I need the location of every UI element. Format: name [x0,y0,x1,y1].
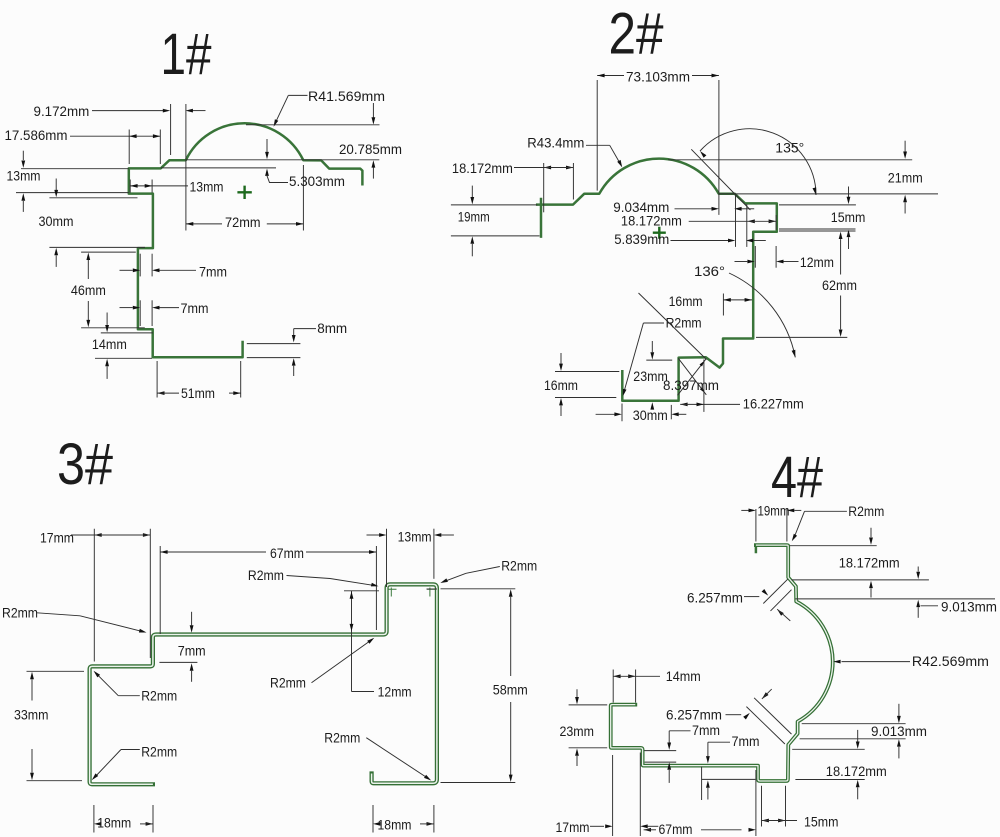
dim 5.303mm [266,139,268,152]
extension line x=718.9 [718,80,720,215]
svg-text:5.303mm: 5.303mm [289,173,345,189]
svg-text:R2mm: R2mm [324,730,360,746]
bottom-right reference line L4 sec4 [795,779,864,781]
step-bottom extension lines right [779,228,856,230]
svg-text:R2mm: R2mm [666,315,702,331]
svg-text:15mm: 15mm [804,814,839,830]
svg-text:8.397mm: 8.397mm [663,377,719,393]
svg-text:9.013mm: 9.013mm [941,599,997,615]
extension line x=129 (17.586 left) [128,130,130,165]
svg-text:R2mm: R2mm [501,558,537,574]
svg-text:R42.569mm: R42.569mm [912,653,989,669]
svg-text:1#: 1# [161,22,212,87]
top flat extension line right sec4 [790,545,877,547]
extension line x=746.8 [746,204,748,247]
dim 18mm left [93,805,95,833]
svg-text:18mm: 18mm [97,815,131,831]
dim 14mm sec4 [612,670,614,703]
extension line x=612.6 sec4 [612,755,614,836]
svg-text:3#: 3# [57,432,113,497]
svg-text:6.257mm: 6.257mm [687,590,743,606]
svg-text:136°: 136° [694,263,725,279]
svg-text:16mm: 16mm [544,377,578,393]
svg-text:62mm: 62mm [822,277,857,293]
33mm bottom reference line [27,780,83,782]
chamfer extension diagonal for 135 [691,149,750,210]
profile 2 left end tick [540,199,543,237]
46mm bottom reference line [81,327,145,329]
7mm reference lines first sec4 [644,750,676,752]
extension line x=755.3 mid [754,246,756,268]
profile 3 inner corner tick left [388,588,397,597]
svg-text:15mm: 15mm [831,209,866,225]
diagonal reference line for 136 [639,293,707,360]
svg-text:17.586mm: 17.586mm [5,127,68,143]
flat-top extension line right [779,204,856,206]
dim 12mm sec3 [351,591,353,692]
svg-text:12mm: 12mm [800,254,834,270]
extension line x=160.3 (17.586 right) [159,130,161,165]
svg-text:72mm: 72mm [225,214,261,230]
svg-text:R2mm: R2mm [2,605,38,621]
svg-text:R2mm: R2mm [248,567,284,583]
dim 46mm [86,253,90,260]
svg-text:46mm: 46mm [71,282,106,298]
svg-text:9.172mm: 9.172mm [34,103,90,119]
profile 4 outline [611,545,833,781]
svg-text:51mm: 51mm [181,385,215,401]
svg-text:7mm: 7mm [178,643,206,659]
58mm short extension line [427,588,438,590]
svg-text:18.172mm: 18.172mm [621,213,682,229]
profile 4 top flat end tick [755,545,758,552]
svg-text:7mm: 7mm [692,722,720,738]
19mm top reference line [451,204,537,206]
center mark profile 2 [653,227,666,239]
extension line x=150.3 [149,529,151,658]
dim 51mm [156,361,158,398]
svg-text:2#: 2# [609,2,664,67]
dim 72mm [186,223,222,225]
chamfer-start extension line right sec4 [792,579,929,581]
profile 2 outline [537,159,777,401]
dim 18mm right [372,805,374,833]
23mm top reference line [646,359,672,361]
svg-text:14mm: 14mm [92,336,127,352]
46mm top reference line [81,251,136,253]
23mm top reference line sec4 [569,704,608,706]
svg-text:13mm: 13mm [7,168,41,184]
30mm bottom reference line [49,246,145,248]
svg-text:13mm: 13mm [398,529,432,545]
chamfer-end extension line right sec4 [796,598,996,600]
extension line x=94.3 [93,529,95,662]
14mm bottom reference line [95,357,152,359]
chamfer tick lines top sec4 [763,579,787,603]
extension line x=170.6 (9.172 left) [170,104,172,155]
profile 3 inner corner tick right [427,588,436,597]
flat reference line for 5.303 [161,167,276,169]
extension line x=160.2 [159,546,161,634]
extension line x=376.4 [375,546,377,630]
profile 1 outline [129,123,363,357]
bottom-right reference line L2 sec4 [800,738,906,740]
dim 14mm [106,313,108,325]
svg-text:5.839mm: 5.839mm [614,231,669,247]
svg-text:30mm: 30mm [633,407,668,423]
extension line x=185.9 (9.172 right / 72 left) [185,104,187,231]
33mm top reference line [27,670,85,672]
extension line x=622 [621,404,623,422]
extension line x=776.1 upper [775,215,777,230]
svg-text:16mm: 16mm [669,293,703,309]
dim 30mm [55,179,57,191]
svg-text:7mm: 7mm [732,733,760,749]
extension line x=755.9 sec4 [755,770,757,836]
62mm bottom reference line [756,336,847,338]
16mm-left bottom reference line [555,397,616,399]
14mm top reference line [101,332,153,334]
12mm top extension line [344,590,379,592]
svg-text:18.172mm: 18.172mm [452,160,513,176]
svg-text:19mm: 19mm [758,503,790,519]
extension line x=701.6 sec4 [701,767,703,801]
svg-text:R41.569mm: R41.569mm [308,88,385,104]
svg-text:14mm: 14mm [666,668,701,684]
svg-text:16.227mm: 16.227mm [743,396,804,412]
16mm-left top reference line [555,371,619,373]
7mm lower reference line [159,661,197,663]
svg-text:18.172mm: 18.172mm [826,763,887,779]
dim 16.227mm [680,403,687,407]
bottom-right reference line L1 sec4 [802,723,906,725]
19mm bottom reference line [451,235,540,237]
svg-text:17mm: 17mm [40,530,74,546]
dim 7mm upper [139,254,141,277]
svg-text:7mm: 7mm [199,264,227,280]
extension line x=543.7 [543,163,545,212]
23mm bottom reference line sec4 [569,747,608,749]
svg-text:R43.4mm: R43.4mm [527,135,584,151]
bottom-right reference line L3 sec4 [792,748,865,750]
notch cross leader lines [678,359,707,395]
dim 19mm sec4 [755,509,757,542]
dim 8mm [247,343,301,345]
extension line x=703.9 [703,360,705,412]
svg-text:6.257mm: 6.257mm [666,707,722,723]
svg-text:18.172mm: 18.172mm [839,555,900,571]
svg-text:8mm: 8mm [317,320,347,336]
dim 13mm left [22,151,24,160]
extension line x=433.9 [433,529,435,579]
dome2 chord line right [719,193,938,195]
svg-text:67mm: 67mm [270,545,304,561]
dim 13mm mid [129,180,131,193]
profile 3 outline [90,584,437,784]
svg-text:R2mm: R2mm [270,675,306,691]
dim 7mm lower [139,300,141,326]
svg-text:R2mm: R2mm [848,503,884,519]
svg-text:4#: 4# [771,445,823,510]
extension line x=735.5 [735,196,737,247]
left flat extension line [21,168,129,170]
dome top tangent line [246,124,380,126]
svg-text:33mm: 33mm [14,707,49,723]
extension line x=776.1 lower [775,246,777,268]
dim 9.013mm upper sec4 [921,605,939,607]
svg-text:17mm: 17mm [556,819,590,835]
extension line x=386.5 [386,529,388,587]
extension line x=723.4 [722,294,724,316]
30mm top reference line [49,197,137,199]
svg-text:20.785mm: 20.785mm [339,141,402,157]
extension line x=597.2 [596,80,598,191]
svg-text:23mm: 23mm [560,723,595,739]
svg-text:18mm: 18mm [378,817,412,833]
bottom flat extension line left sec4 [701,778,755,780]
svg-text:58mm: 58mm [493,682,528,698]
svg-text:R2mm: R2mm [141,688,177,704]
dome2 top tangent line [668,159,912,161]
svg-text:9.013mm: 9.013mm [871,723,927,739]
chamfer tick lines bottom sec4 [746,707,785,744]
svg-text:73.103mm: 73.103mm [626,69,690,85]
extension line x=303.4 (72 right) [302,165,304,231]
svg-text:12mm: 12mm [378,684,412,700]
extension line x=640.3 sec4 [639,753,641,837]
center mark profile 1 [237,186,251,199]
dome chord line [186,159,379,161]
extension line x=671.3 [670,405,672,419]
svg-text:30mm: 30mm [39,213,74,229]
svg-text:R2mm: R2mm [141,744,177,760]
svg-text:21mm: 21mm [888,170,923,186]
svg-text:13mm: 13mm [190,179,224,195]
svg-text:19mm: 19mm [458,209,490,225]
extension line x=573.4 [572,163,574,200]
svg-text:67mm: 67mm [659,821,693,837]
13mm-left lower reference line [16,192,129,194]
svg-text:7mm: 7mm [181,300,209,316]
